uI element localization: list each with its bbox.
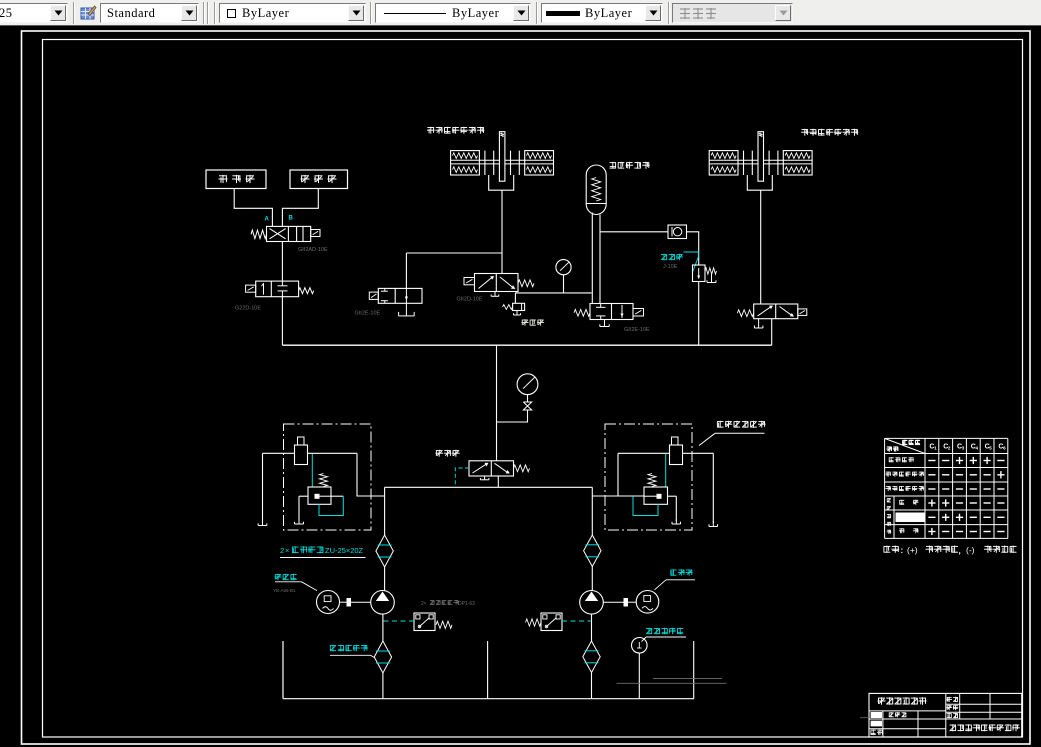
spring of valve U1	[251, 230, 267, 238]
valve U5 GII2E-10E body	[378, 288, 422, 303]
wire gauge P2 stem	[527, 395, 529, 402]
spring of reducing valve	[705, 268, 717, 274]
oil tank	[282, 641, 284, 699]
wire accumulator to check valve	[600, 231, 668, 233]
coupling L	[347, 598, 352, 607]
check valve CV1	[668, 225, 687, 239]
svg-text:(+): (+)	[907, 545, 918, 555]
table sub labels	[899, 500, 918, 505]
brake B2 piston plates	[743, 151, 745, 175]
table row labels	[889, 457, 914, 462]
spring of valve U4	[574, 309, 590, 316]
svg-text:GII2AD-10E: GII2AD-10E	[298, 247, 328, 253]
pump P-R	[580, 591, 604, 615]
unit R pilot relief valve	[644, 487, 668, 504]
brake B1 push rods	[451, 159, 500, 161]
filter F3 (top right)	[591, 487, 593, 535]
leader 减压阀	[684, 252, 699, 272]
svg-text:GII2E-10E: GII2E-10E	[355, 311, 381, 317]
brake B1 yoke	[489, 175, 514, 190]
wire valve U7 to bus	[771, 319, 773, 346]
brake B2 left cylinder	[709, 151, 738, 175]
spring of relief valve	[503, 305, 513, 310]
node 分开腔 box	[290, 170, 348, 189]
enclosure 电液调压装置 right	[605, 424, 692, 530]
solenoid of valve U1	[311, 230, 320, 237]
brake B1 right cylinder	[525, 151, 554, 175]
electromagnet table	[885, 438, 1008, 538]
svg-text::: :	[901, 546, 904, 555]
unit L proportional solenoid	[298, 437, 305, 445]
solenoid of valve U5	[369, 292, 378, 299]
unit R proportional solenoid	[672, 437, 679, 445]
label 减压阀	[661, 254, 683, 260]
valve U2 G22D-10E body	[256, 281, 299, 297]
brake B2 push rods	[709, 159, 758, 161]
wire unit R supply line	[618, 452, 713, 454]
wire pilot return	[487, 641, 489, 699]
wire F3 to pump P-R	[591, 567, 593, 591]
svg-text:DP1-63: DP1-63	[458, 601, 475, 607]
wire U2 to main bus	[281, 297, 283, 346]
title 液压站系统图	[878, 697, 927, 704]
valve U3 GII2D-10E body	[475, 274, 519, 292]
filter F1 (top left)	[384, 487, 386, 535]
label 电液调压装置	[717, 421, 766, 428]
wire gauge P1 stem	[563, 275, 565, 293]
wire unit L valve right port	[331, 495, 343, 497]
title block	[869, 693, 1022, 737]
wire gauge T1 to tank	[638, 653, 640, 699]
brake B2 disc	[758, 132, 764, 182]
wire F4 to tank	[591, 673, 593, 699]
svg-text:ZU-25×20Z: ZU-25×20Z	[325, 546, 364, 555]
wire check valve to reducing valve	[687, 232, 699, 265]
wire unit R valve right port	[668, 495, 677, 497]
tank of valve U7	[758, 319, 760, 328]
wire pump header	[385, 486, 593, 488]
spring unit L valve	[320, 474, 328, 487]
tank liquid level lines	[653, 677, 722, 679]
wire accumulator down pair	[591, 213, 593, 304]
svg-text:2×: 2×	[421, 601, 427, 607]
spring of valve U2	[299, 288, 314, 294]
unit L pilot relief valve	[308, 487, 331, 504]
solenoid of valve U3	[464, 278, 475, 285]
wire brake line to valve U5	[406, 252, 502, 254]
solenoid of valve U4	[633, 309, 644, 317]
label 叶片泵	[275, 574, 297, 580]
wire 分开腔 to valve port B	[282, 189, 318, 227]
svg-text:,: ,	[959, 547, 961, 556]
title block cells	[871, 712, 882, 718]
pressure gauge P1	[556, 260, 571, 275]
valve U7 body	[754, 304, 798, 319]
svg-text:J-10E: J-10E	[663, 264, 678, 270]
wire return right	[693, 641, 695, 699]
reducing valve V1 body	[693, 265, 706, 282]
tank of relief valve	[516, 311, 518, 316]
table merged cell vertical label	[887, 498, 891, 502]
coupling R	[624, 598, 629, 607]
frame tick	[860, 717, 869, 719]
tank of valve U4	[604, 320, 606, 327]
wire U1 to U2	[281, 242, 283, 282]
pilot valve U6 body	[469, 461, 514, 476]
wire unit R left leg	[617, 453, 619, 496]
solenoid of valve U7	[798, 309, 807, 316]
svg-text:(-): (-)	[966, 545, 975, 555]
svg-text:YB-A56-B1: YB-A56-B1	[273, 588, 296, 593]
brake B2 right cylinder	[783, 151, 812, 175]
brake B1 piston plates	[484, 151, 486, 175]
spring relay S2	[526, 619, 542, 626]
wire unit L valve left port	[299, 495, 308, 497]
wire gauge branch to main line	[497, 410, 528, 422]
accumulator AC1	[586, 165, 606, 215]
motor M-R	[636, 591, 659, 614]
svg-text:A: A	[265, 217, 270, 223]
pressure relay S1	[414, 613, 435, 631]
wire F1 to pump P-L	[384, 567, 386, 591]
wire unit L supply line	[263, 452, 358, 454]
label 液动阀	[436, 450, 460, 457]
wire brake B2 to valve U7	[760, 190, 762, 304]
spring unit R valve	[648, 474, 656, 487]
solenoid of valve U2	[246, 285, 256, 292]
tank of valve U5	[405, 303, 407, 316]
spring of valve U7	[737, 310, 753, 317]
pilot wire unit L cyan	[311, 454, 313, 487]
spring of valve U3	[518, 280, 534, 287]
wire unit L left drain	[262, 453, 264, 522]
label 溢流阀	[522, 319, 545, 325]
svg-text:G22D-10E: G22D-10E	[235, 306, 261, 312]
label 固定卷筒制动器	[801, 129, 858, 136]
brake B2 yoke	[747, 175, 772, 190]
motor M-L	[317, 591, 340, 614]
tank of valve U3	[494, 292, 496, 297]
node 合上腔 box	[206, 170, 266, 189]
wire F2 to tank	[382, 673, 384, 699]
valve U1 GII2AD-10E body	[267, 226, 311, 241]
filter F4 (bottom right)	[591, 614, 593, 641]
pilot dashed to relay S2	[562, 620, 591, 622]
svg-text:B: B	[289, 216, 294, 222]
wire 合上腔 to valve port A	[234, 189, 272, 227]
svg-text:2: 2	[280, 546, 284, 555]
wire bus to pilot valve	[496, 345, 498, 461]
spring relay S1	[436, 621, 452, 628]
label 压力温度计	[646, 628, 683, 634]
label 电动机	[670, 569, 692, 575]
svg-text:×: ×	[285, 546, 289, 555]
spring of pilot valve	[514, 465, 530, 472]
brake B1 left cylinder	[451, 151, 480, 175]
svg-text:GII2D-10E: GII2D-10E	[457, 297, 483, 303]
wire unit R feed	[592, 495, 644, 497]
pilot line dashed	[455, 468, 469, 487]
wire unit L right leg	[357, 453, 385, 496]
shutoff valve bowtie	[523, 402, 531, 410]
wire brake B1 to valve U3	[501, 190, 503, 273]
filter F2 (bottom left)	[382, 614, 384, 641]
thermometer gauge T1	[632, 638, 648, 654]
pilot return unit R cyan	[633, 496, 658, 515]
pilot dashed to relay S1	[384, 620, 415, 622]
pilot wire unit R cyan	[665, 454, 667, 487]
table remark	[884, 546, 900, 553]
tank of pilot valve	[484, 476, 486, 480]
pump P-L	[371, 591, 395, 615]
wire unit R right drain	[712, 453, 714, 523]
wire pilot valve to pump line	[497, 476, 499, 487]
label 游动卷筒制动器	[427, 127, 484, 134]
wire reducing valve to bus	[698, 282, 700, 346]
wire to relief valve	[514, 293, 516, 303]
table plus minus matrix	[928, 457, 1004, 535]
relief valve V2 body	[513, 303, 525, 310]
brake B1 disc	[499, 132, 505, 182]
valve U4 GII2E-10E body	[590, 304, 633, 320]
title 中国矿业大学成教院	[950, 724, 1020, 731]
enclosure 电液调压装置 left	[284, 424, 372, 530]
pilot return unit L cyan	[319, 496, 343, 515]
wire main pressure bus	[282, 344, 771, 346]
tank of reducing valve	[711, 274, 713, 282]
pressure relay S2	[541, 613, 562, 631]
wire valve U3 to accumulator line	[515, 292, 517, 293]
pressure gauge P2	[517, 374, 538, 395]
table header diagonal labels	[902, 440, 920, 445]
label 网式过滤器	[330, 645, 368, 651]
label 弹簧蓄能器	[610, 162, 650, 169]
svg-text:GII2E-10E: GII2E-10E	[624, 327, 650, 333]
